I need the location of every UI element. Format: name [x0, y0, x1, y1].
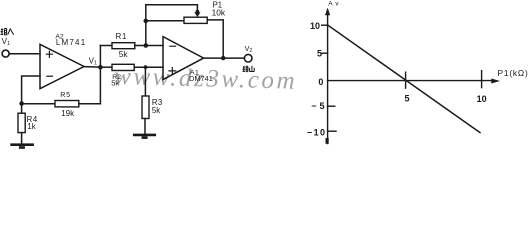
svg-text:V1: V1	[89, 56, 97, 66]
output terminal V2	[244, 54, 252, 62]
svg-text:1k: 1k	[27, 122, 35, 131]
wire R1 to inverting input of A1	[135, 45, 163, 47]
wire apex A2 to node V1	[84, 66, 100, 69]
y axis bottom blob	[326, 138, 329, 144]
svg-text:10k: 10k	[212, 8, 226, 18]
input terminal V1	[2, 50, 9, 57]
resistor R5 19k	[55, 101, 79, 107]
wire V1 vertical	[99, 46, 101, 104]
wire top of P1	[146, 5, 198, 11]
svg-text:19k: 19k	[61, 109, 75, 118]
resistor R3 5k	[142, 96, 149, 119]
svg-text:5: 5	[404, 93, 409, 103]
svg-text:5: 5	[317, 49, 322, 59]
svg-text:−5: −5	[311, 101, 327, 111]
svg-text:R5: R5	[60, 90, 71, 99]
svg-text:DM741: DM741	[189, 74, 213, 83]
node output	[221, 56, 225, 60]
tick y -5	[328, 105, 335, 107]
label 输入 (input)	[1, 28, 14, 35]
resistor R4 1k	[18, 113, 25, 132]
node V1	[98, 65, 103, 70]
svg-text:5k: 5k	[111, 78, 119, 87]
wire P1 right down to output	[207, 20, 223, 58]
svg-text:LM741: LM741	[56, 38, 86, 47]
resistor R2 5k	[112, 64, 134, 70]
x axis arrowhead	[491, 79, 500, 84]
wire P1 junction vertical	[145, 5, 147, 46]
svg-text:P1(kΩ): P1(kΩ)	[498, 68, 528, 78]
ground below R3	[134, 134, 155, 137]
op-amp A1 DM741	[163, 37, 204, 80]
wire junction to P1 left	[146, 20, 184, 22]
wire V1 to R1	[100, 45, 112, 47]
tick y 5	[322, 52, 328, 54]
node inverting A2	[19, 101, 24, 106]
wire R2 to non-inverting input of A1	[134, 66, 163, 68]
tick x 10	[481, 71, 483, 88]
gain line	[328, 25, 480, 132]
tick y -10	[328, 130, 336, 132]
svg-text:V1: V1	[2, 37, 10, 47]
svg-text:V2: V2	[245, 44, 253, 54]
resistor R1 5k	[112, 43, 135, 49]
svg-text:R1: R1	[116, 32, 128, 41]
wire inverting input A2	[22, 76, 40, 104]
wire input to op-amp	[9, 53, 40, 55]
y axis	[327, 10, 329, 144]
svg-text:10: 10	[310, 21, 320, 31]
op-amp A2 LM741	[40, 44, 84, 88]
wire output of A1 to terminal	[204, 57, 245, 59]
x axis	[328, 80, 492, 82]
graph axes	[322, 8, 500, 144]
wire R4 to ground	[21, 133, 23, 144]
y axis arrowhead	[325, 8, 330, 16]
wire V1 to R2	[100, 66, 112, 68]
svg-text:5k: 5k	[152, 106, 160, 115]
wiper arrow of P1	[196, 10, 200, 14]
svg-text:0: 0	[318, 77, 323, 87]
wire R3 top	[144, 67, 146, 96]
tick x 5	[405, 72, 407, 88]
svg-text:10: 10	[477, 94, 487, 104]
svg-text:5k: 5k	[119, 50, 129, 59]
potentiometer P1 10k	[184, 17, 207, 23]
node P1 left junction	[144, 19, 149, 24]
label 输出 (output)	[243, 66, 255, 72]
wire R5 to V1 vertical	[79, 103, 101, 105]
tick y 10	[322, 24, 328, 26]
svg-text:Av: Av	[328, 1, 341, 8]
wire node to R5	[22, 103, 55, 105]
svg-text:−10: −10	[307, 127, 326, 137]
ground below R4	[12, 143, 33, 146]
wire R4 top	[21, 104, 23, 114]
node R2 non-inverting A1	[144, 65, 148, 69]
wire R3 to ground	[144, 119, 146, 135]
node R1 inverting A1	[144, 43, 149, 48]
